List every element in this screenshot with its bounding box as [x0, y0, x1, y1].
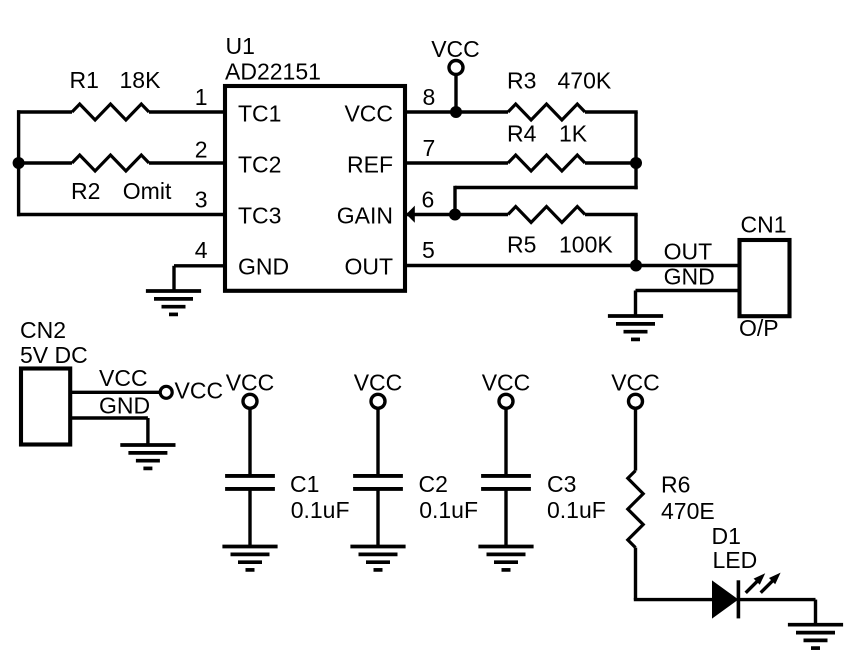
wire C1 upper lead	[248, 408, 251, 476]
wire LED cathode to ground	[738, 598, 815, 601]
svg-text:TC2: TC2	[238, 151, 281, 177]
node junction R4/feedback	[630, 157, 642, 169]
wire R5 right	[585, 213, 638, 216]
svg-text:18K: 18K	[120, 67, 162, 93]
svg-text:TC1: TC1	[238, 100, 281, 126]
ground under C1	[222, 547, 277, 570]
ground under C2	[350, 547, 405, 570]
wire pin3	[17, 213, 225, 216]
wire down to LED ground	[814, 600, 817, 625]
svg-text:1: 1	[195, 84, 208, 110]
wire R3 right	[585, 110, 638, 113]
wire C1 lower lead	[248, 489, 251, 548]
LED light arrow 1	[746, 573, 766, 593]
wire CN1 GND	[636, 289, 740, 292]
svg-text:VCC: VCC	[175, 377, 224, 403]
svg-text:0.1uF: 0.1uF	[419, 497, 478, 523]
svg-text:470E: 470E	[661, 498, 715, 524]
svg-text:GND: GND	[99, 393, 150, 419]
svg-text:VCC: VCC	[431, 36, 480, 62]
power symbol VCC over R6	[629, 394, 643, 408]
svg-text:VCC: VCC	[611, 370, 660, 396]
node junction left bus pin2	[13, 157, 25, 169]
svg-text:1K: 1K	[559, 121, 588, 147]
svg-text:CN2: CN2	[20, 317, 66, 343]
svg-text:470K: 470K	[558, 68, 612, 94]
wire pin2 to U1	[149, 161, 225, 164]
resistor R6	[628, 471, 643, 548]
svg-text:GAIN: GAIN	[337, 203, 393, 229]
svg-text:LED: LED	[713, 547, 758, 573]
node junction out net	[630, 260, 642, 272]
resistor R3	[508, 104, 585, 120]
svg-text:CN1: CN1	[741, 212, 787, 238]
svg-text:TC3: TC3	[238, 203, 281, 229]
svg-text:U1: U1	[226, 33, 255, 59]
wire VCC stem	[454, 75, 457, 113]
svg-text:C3: C3	[547, 471, 576, 497]
svg-text:R3: R3	[507, 68, 536, 94]
capacitor C2 plates	[353, 476, 403, 489]
wire CN1 GND down	[634, 291, 637, 318]
svg-text:GND: GND	[664, 264, 715, 290]
resistor R4	[508, 155, 585, 171]
svg-text:Omit: Omit	[123, 178, 172, 204]
svg-text:5V DC: 5V DC	[20, 342, 88, 368]
svg-text:3: 3	[195, 187, 208, 213]
wire pin1 left segment	[17, 110, 72, 113]
wire pin4 down to ground	[172, 266, 175, 292]
svg-text:R6: R6	[661, 472, 690, 498]
wire CN2 GND pin	[70, 416, 148, 419]
wire pin1 to U1	[149, 110, 225, 113]
power symbol VCC over C3	[499, 394, 513, 408]
svg-text:4: 4	[195, 237, 208, 263]
wire CN2 GND down	[146, 418, 149, 446]
wire R6 upper lead	[634, 408, 637, 470]
svg-text:VCC: VCC	[99, 365, 148, 391]
svg-text:R2: R2	[71, 178, 100, 204]
svg-text:7: 7	[423, 135, 436, 161]
wire left bus vertical	[17, 110, 20, 216]
wire C2 upper lead	[376, 408, 379, 476]
diode D1 LED triangle	[712, 580, 738, 618]
wire pin2 left segment	[17, 161, 72, 164]
svg-text:GND: GND	[238, 254, 289, 280]
capacitor C3 plates	[481, 476, 531, 489]
svg-text:2: 2	[195, 137, 208, 163]
wire feedback horizontal	[455, 186, 638, 189]
ground at CN2	[120, 445, 175, 468]
LED light arrow 2	[761, 573, 781, 593]
wire pin8 to R3	[405, 110, 508, 113]
wire R4 right	[585, 161, 636, 164]
svg-text:5: 5	[422, 237, 435, 263]
svg-text:0.1uF: 0.1uF	[291, 497, 350, 523]
wire C3 lower lead	[504, 489, 507, 548]
power symbol VCC over C2	[371, 394, 385, 408]
wire pin7 to R4	[405, 161, 508, 164]
connector CN1 body	[740, 240, 790, 316]
ground at CN1	[608, 316, 663, 339]
wire pin5 OUT to CN1	[405, 264, 740, 267]
svg-text:OUT: OUT	[344, 254, 393, 280]
op-amp U1 AD22151 sensor IC body	[225, 86, 405, 291]
svg-text:0.1uF: 0.1uF	[547, 497, 606, 523]
svg-text:C2: C2	[419, 471, 448, 497]
power symbol VCC top	[449, 61, 463, 75]
svg-text:100K: 100K	[559, 232, 613, 258]
connector CN2 body	[21, 369, 70, 445]
wire R6 lower lead	[634, 548, 637, 600]
wire C3 upper lead	[504, 408, 507, 476]
svg-text:REF: REF	[347, 151, 393, 177]
svg-text:VCC: VCC	[482, 370, 531, 396]
capacitor C1 plates	[225, 476, 275, 489]
svg-text:AD22151: AD22151	[225, 58, 321, 84]
ground at LED	[788, 625, 843, 648]
power symbol VCC over C1	[243, 394, 257, 408]
svg-text:VCC: VCC	[354, 370, 403, 396]
wire R5 down to out net	[634, 215, 637, 266]
svg-text:OUT: OUT	[664, 239, 713, 265]
svg-text:8: 8	[423, 84, 436, 110]
wire pin6 gain	[407, 213, 508, 216]
svg-text:C1: C1	[290, 471, 319, 497]
resistor R2	[72, 155, 149, 171]
svg-text:VCC: VCC	[226, 370, 275, 396]
node junction gain net	[449, 209, 461, 221]
ground at U1 pin 4	[146, 291, 201, 314]
svg-text:O/P: O/P	[739, 315, 779, 341]
wire to LED anode	[634, 598, 713, 601]
resistor R5	[508, 207, 585, 223]
pin circle VCC net stub	[160, 386, 172, 398]
diode D1 cathode bar	[737, 580, 741, 618]
node junction VCC/pin8	[450, 106, 462, 118]
wire R3/R4 right vertical	[634, 112, 637, 189]
svg-text:R1: R1	[70, 67, 99, 93]
svg-text:6: 6	[422, 187, 435, 213]
svg-text:VCC: VCC	[344, 100, 393, 126]
arrowhead into GAIN pin 6	[406, 206, 415, 223]
wire feedback down to pin6	[453, 186, 456, 215]
wire CN2 VCC pin	[70, 391, 160, 394]
svg-text:R4: R4	[507, 121, 537, 147]
resistor R1	[72, 104, 149, 120]
svg-text:R5: R5	[507, 232, 536, 258]
wire pin4	[174, 264, 225, 267]
svg-text:D1: D1	[712, 523, 741, 549]
wire C2 lower lead	[376, 489, 379, 548]
ground under C3	[478, 547, 533, 570]
